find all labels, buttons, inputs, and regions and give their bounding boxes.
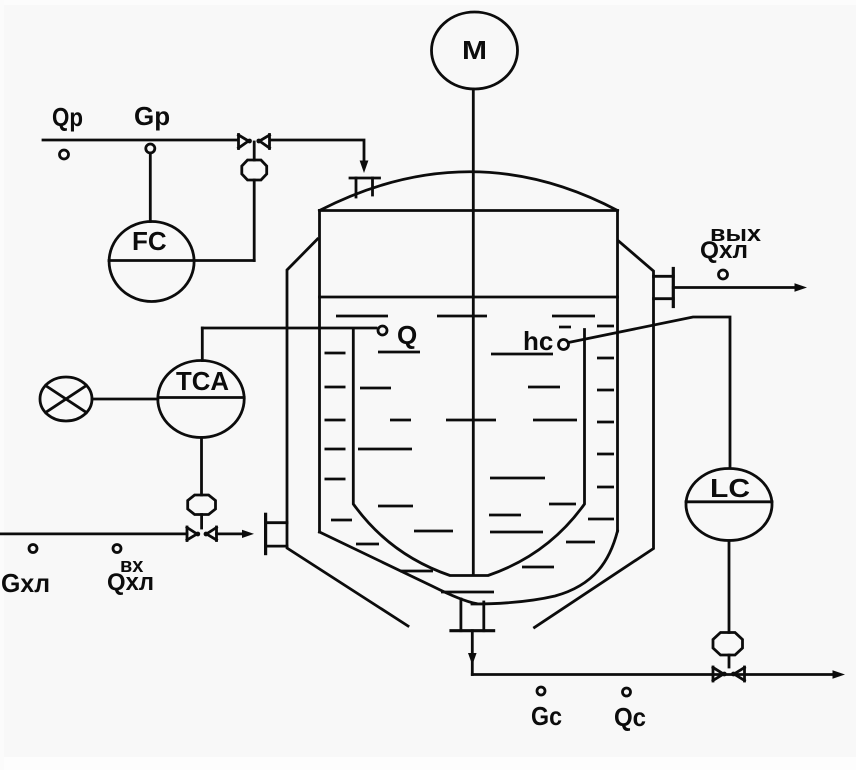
svg-text:Gp: Gp: [134, 101, 170, 131]
svg-text:FC: FC: [132, 226, 167, 256]
svg-text:Qp: Qp: [52, 102, 83, 132]
svg-text:TCA: TCA: [176, 366, 229, 396]
svg-text:LC: LC: [710, 473, 750, 503]
svg-text:Q: Q: [397, 320, 417, 350]
svg-text:вых: вых: [710, 221, 762, 246]
svg-text:Qc: Qc: [614, 702, 646, 732]
svg-text:вх: вх: [120, 555, 143, 577]
svg-text:Gхл: Gхл: [1, 568, 50, 598]
svg-text:Gc: Gc: [531, 701, 562, 731]
svg-text:M: M: [462, 35, 487, 65]
svg-text:hc: hc: [523, 326, 553, 356]
